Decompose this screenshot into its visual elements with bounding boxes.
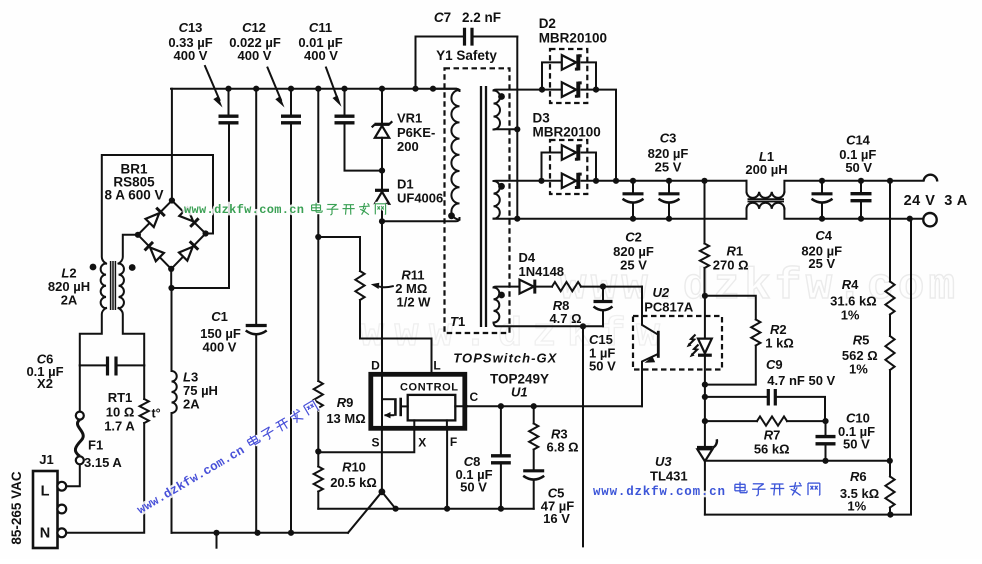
wire: TL431 ref line bbox=[705, 460, 890, 462]
capacitor C11 bbox=[345, 89, 383, 171]
resistor R11 bbox=[355, 271, 364, 300]
svg-text:2A: 2A bbox=[61, 293, 78, 308]
svg-text:TOPSwitch-GX: TOPSwitch-GX bbox=[453, 351, 557, 366]
svg-text:TL431: TL431 bbox=[650, 469, 688, 484]
wire: drain line down to U1 D pin bbox=[381, 221, 383, 372]
svg-text:24 V: 24 V bbox=[904, 193, 936, 209]
svg-text:1N4148: 1N4148 bbox=[519, 264, 565, 279]
svg-text:D: D bbox=[371, 359, 380, 373]
svg-text:31.6 kΩ: 31.6 kΩ bbox=[830, 294, 877, 309]
wire: to R11 bbox=[318, 237, 360, 271]
U2 phototransistor bbox=[642, 287, 658, 335]
watermark blue horizontal bbox=[593, 482, 820, 499]
svg-text:50 V: 50 V bbox=[845, 160, 872, 175]
svg-text:R6: R6 bbox=[850, 469, 867, 484]
diode D4 bbox=[520, 280, 534, 294]
capacitor C2 bbox=[632, 181, 634, 219]
wire: N terminal to RT1 bbox=[66, 423, 144, 533]
svg-text:16 V: 16 V bbox=[543, 511, 570, 526]
T1 primary winding bbox=[433, 89, 460, 91]
svg-text:R7: R7 bbox=[764, 428, 781, 443]
wire: main DC+ top rail bbox=[171, 88, 456, 90]
svg-text:C9: C9 bbox=[766, 357, 783, 372]
optocoupler U2 bbox=[633, 316, 722, 370]
svg-text:50 V: 50 V bbox=[589, 359, 616, 374]
svg-text:270 Ω: 270 Ω bbox=[713, 258, 749, 273]
svg-text:Y1 Safety: Y1 Safety bbox=[436, 48, 497, 63]
svg-text:L: L bbox=[41, 484, 50, 500]
wire: source rail bbox=[318, 508, 533, 510]
resistor R2 bbox=[705, 296, 756, 320]
diode D3 (dual) bbox=[550, 140, 587, 194]
svg-text:8 A 600 V: 8 A 600 V bbox=[104, 188, 163, 203]
svg-text:T1: T1 bbox=[450, 314, 465, 329]
capacitor C6 bbox=[108, 357, 117, 376]
wire: F1 to C6 left node bbox=[79, 365, 81, 411]
svg-text:J1: J1 bbox=[39, 452, 53, 467]
svg-text:1 kΩ: 1 kΩ bbox=[765, 336, 794, 351]
wire: BR1 plus output up to rail bbox=[171, 89, 173, 201]
svg-text:X: X bbox=[418, 436, 426, 450]
capacitor C13 bbox=[228, 89, 230, 115]
svg-text:RT1: RT1 bbox=[108, 390, 133, 405]
svg-text:CONTROL: CONTROL bbox=[400, 382, 458, 394]
capacitor C14 bbox=[860, 181, 862, 219]
wire: X pin bbox=[318, 431, 414, 453]
wire: L2 right top to BR1 left vertex bbox=[119, 235, 138, 264]
inductor L1 bbox=[746, 181, 748, 192]
svg-text:1%: 1% bbox=[841, 308, 860, 323]
svg-text:www.dzkfw.com.cn: www.dzkfw.com.cn bbox=[184, 203, 304, 217]
transformer T1 dashed box bbox=[445, 68, 510, 333]
arrow to R11 bbox=[378, 286, 393, 287]
capacitor C4 bbox=[821, 181, 823, 219]
U2 light arrows bbox=[689, 335, 696, 345]
svg-text:C13: C13 bbox=[179, 20, 203, 35]
svg-text:C4: C4 bbox=[815, 228, 832, 243]
svg-text:2.2 nF: 2.2 nF bbox=[462, 10, 501, 25]
svg-text:C: C bbox=[469, 390, 478, 404]
svg-text:50 V: 50 V bbox=[843, 437, 870, 452]
resistor R7 bbox=[705, 420, 757, 422]
svg-text:R5: R5 bbox=[853, 333, 870, 348]
capacitor C5 bbox=[533, 450, 535, 509]
wire: L2 left top up to BR1 frame bbox=[102, 155, 213, 264]
svg-text:25 V: 25 V bbox=[808, 256, 835, 271]
resistor R1 bbox=[704, 181, 706, 244]
svg-text:UF4006: UF4006 bbox=[397, 191, 443, 206]
svg-text:R9: R9 bbox=[337, 395, 354, 410]
svg-text:C3: C3 bbox=[660, 131, 677, 146]
svg-text:4.7 Ω: 4.7 Ω bbox=[549, 311, 581, 326]
svg-text:C12: C12 bbox=[242, 20, 266, 35]
svg-text:U3: U3 bbox=[655, 454, 672, 469]
svg-text:MBR20100: MBR20100 bbox=[539, 31, 607, 46]
T1 core bbox=[481, 86, 486, 327]
wire: L terminal to fuse F1 bbox=[66, 464, 79, 486]
svg-text:D2: D2 bbox=[539, 16, 556, 31]
svg-text:25 V: 25 V bbox=[655, 160, 682, 175]
svg-text:S: S bbox=[371, 436, 379, 450]
svg-text:1/2 W: 1/2 W bbox=[397, 295, 432, 310]
svg-text:D1: D1 bbox=[397, 177, 414, 192]
svg-text:4.7 nF 50 V: 4.7 nF 50 V bbox=[767, 373, 835, 388]
node: R11 tap junction bbox=[315, 234, 321, 240]
wire: R9 column from rail bbox=[317, 89, 319, 381]
node: S junction with return arrow bbox=[379, 488, 386, 495]
svg-text:R1: R1 bbox=[727, 244, 744, 259]
node: X pin junction bbox=[315, 448, 321, 454]
svg-text:C7: C7 bbox=[434, 10, 451, 25]
svg-text:VR1: VR1 bbox=[397, 111, 422, 126]
svg-text:C2: C2 bbox=[625, 230, 642, 245]
svg-text:R10: R10 bbox=[342, 460, 366, 475]
svg-text:F1: F1 bbox=[88, 438, 103, 453]
svg-text:X2: X2 bbox=[37, 376, 53, 391]
svg-text:P6KE-: P6KE- bbox=[397, 125, 435, 140]
output terminals 24V 3A bbox=[924, 175, 938, 182]
wire: S pin bbox=[381, 431, 383, 492]
svg-text:400 V: 400 V bbox=[238, 48, 272, 63]
wire: bottom return rail bbox=[172, 532, 349, 534]
svg-text:6.8 Ω: 6.8 Ω bbox=[547, 440, 579, 455]
capacitor C15 bbox=[600, 283, 606, 289]
svg-text:1%: 1% bbox=[849, 362, 868, 377]
svg-text:U1: U1 bbox=[511, 385, 528, 400]
svg-text:200: 200 bbox=[397, 139, 419, 154]
wire: L2 right bottom to C6 right bbox=[119, 308, 145, 365]
node: bias return junction bbox=[580, 323, 586, 329]
arrow to C12 bbox=[268, 68, 282, 101]
wire: clamp node to primary bottom bbox=[382, 218, 460, 221]
wire: bias return drop bbox=[582, 326, 584, 546]
svg-text:C1: C1 bbox=[211, 309, 228, 324]
capacitor C7 bbox=[416, 37, 464, 89]
svg-text:www.dzkfw.com.cn: www.dzkfw.com.cn bbox=[593, 485, 725, 499]
resistor R9 bbox=[314, 381, 323, 408]
svg-text:C11: C11 bbox=[309, 20, 332, 35]
TVS VR1 bbox=[381, 89, 383, 123]
node: stub bbox=[213, 530, 219, 536]
wire: C pin line bbox=[467, 405, 642, 407]
svg-text:25 V: 25 V bbox=[620, 258, 647, 273]
arrow to C11 bbox=[326, 68, 338, 100]
capacitor C12 bbox=[290, 89, 292, 533]
svg-text:85-265 VAC: 85-265 VAC bbox=[9, 471, 24, 545]
resistor R10 bbox=[314, 467, 323, 492]
thermistor RT1 bbox=[140, 399, 149, 423]
svg-text:R4: R4 bbox=[842, 277, 859, 292]
svg-text:56 kΩ: 56 kΩ bbox=[754, 442, 790, 457]
wire: L2 left bottom to C6 bbox=[80, 308, 106, 365]
svg-text:PC817A: PC817A bbox=[644, 300, 694, 315]
inductor L3 bbox=[171, 288, 173, 371]
svg-text:200 µH: 200 µH bbox=[745, 162, 787, 177]
shunt regulator U3 TL431 bbox=[704, 421, 706, 446]
svg-text:50 V: 50 V bbox=[460, 480, 487, 495]
resistor R3 bbox=[533, 406, 535, 423]
arrow to C13 bbox=[205, 66, 220, 100]
fuse F1 bbox=[76, 456, 84, 464]
wire: BR1 minus down, branch to C13 return bbox=[171, 125, 229, 288]
svg-text:400 V: 400 V bbox=[174, 48, 208, 63]
svg-text:U2: U2 bbox=[653, 285, 670, 300]
T1 secondary winding 2 bbox=[494, 181, 500, 219]
watermark green bbox=[184, 203, 386, 217]
svg-text:N: N bbox=[40, 526, 50, 542]
svg-text:D4: D4 bbox=[519, 250, 536, 265]
svg-text:20.5 kΩ: 20.5 kΩ bbox=[330, 475, 377, 490]
U2 LED bbox=[704, 296, 706, 339]
svg-text:13 MΩ: 13 MΩ bbox=[326, 411, 365, 426]
svg-text:3 A: 3 A bbox=[944, 193, 968, 209]
node: primary polarity dot bbox=[448, 212, 455, 219]
svg-text:C14: C14 bbox=[846, 133, 871, 148]
svg-text:F: F bbox=[450, 435, 457, 449]
T1 bias winding bbox=[494, 288, 500, 323]
svg-text:1.7 A: 1.7 A bbox=[104, 419, 135, 434]
wire: output + rail bbox=[596, 180, 747, 182]
resistor R8 bbox=[552, 282, 581, 291]
watermark blue rotated bbox=[134, 400, 320, 518]
node: L2 polarity dots bbox=[90, 264, 97, 271]
wire: output return rail bbox=[517, 218, 746, 220]
capacitor C1 bbox=[255, 89, 257, 533]
bridge rectifier BR1 bbox=[138, 201, 206, 269]
T1 secondary winding 1 bbox=[494, 91, 501, 130]
capacitor C10 bbox=[825, 421, 827, 461]
capacitor C9 bbox=[704, 385, 706, 422]
svg-text:L: L bbox=[433, 359, 440, 373]
U1 internal mosfet bbox=[381, 374, 383, 430]
svg-text:3.15 A: 3.15 A bbox=[84, 455, 122, 470]
svg-text:400 V: 400 V bbox=[203, 340, 237, 355]
svg-text:MBR20100: MBR20100 bbox=[533, 125, 601, 140]
svg-text:10 Ω: 10 Ω bbox=[106, 405, 135, 420]
wire: winding1 return / Y-cap line bbox=[516, 37, 518, 219]
svg-text:2A: 2A bbox=[183, 397, 200, 412]
connector J1 bbox=[33, 471, 58, 548]
diode D1 bbox=[381, 171, 383, 189]
svg-text:D3: D3 bbox=[533, 111, 551, 126]
common-mode choke L2 bbox=[101, 264, 106, 309]
diode D2 (dual) bbox=[550, 49, 587, 103]
wire: F pin bbox=[446, 431, 448, 509]
svg-text:400 V: 400 V bbox=[304, 48, 338, 63]
svg-text:1%: 1% bbox=[847, 499, 866, 514]
svg-text:t°: t° bbox=[152, 407, 161, 421]
wire: bottom feedback rail bbox=[705, 219, 911, 515]
op-amp U1 TOPSwitch block bbox=[371, 374, 465, 428]
capacitor C8 bbox=[500, 406, 502, 509]
capacitor C3 bbox=[668, 181, 670, 219]
divider chain R4 R5 R6 bbox=[889, 181, 891, 282]
